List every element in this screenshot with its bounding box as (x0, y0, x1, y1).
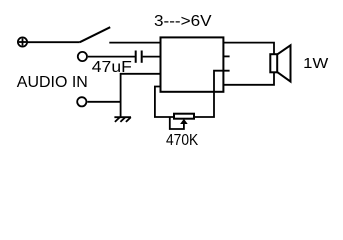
svg-text:1W: 1W (303, 55, 329, 72)
IC U1 box (161, 37, 224, 91)
audio input terminal (lower) (77, 97, 86, 106)
svg-text:470K: 470K (166, 132, 198, 149)
switch S1 blade (80, 27, 110, 42)
potentiometer R1 body (174, 114, 194, 119)
IC pin stub (right side) (223, 55, 229, 57)
wire capacitor to IC input pin (143, 56, 161, 58)
wire lower terminal to ground node (87, 101, 120, 103)
wire battery to switch (27, 41, 79, 43)
wire IC output to speaker (top) (223, 43, 274, 55)
wire IC output to speaker (bottom) (223, 72, 274, 85)
wire switch to IC pin (supply) (109, 42, 160, 44)
IC ground pin wire (121, 74, 161, 117)
pot right wire up to IC output pin (194, 71, 230, 117)
potentiometer wiper arrow (170, 117, 188, 129)
wire terminal to capacitor (88, 56, 135, 58)
speaker LS1 (270, 45, 290, 81)
capacitor C1 47uF (136, 51, 142, 63)
battery + terminal (18, 37, 27, 46)
IC feedback pin to pot (left side) (155, 87, 174, 118)
audio input terminal (upper) (78, 52, 87, 61)
ground (114, 117, 131, 122)
svg-text:3--->6V: 3--->6V (154, 13, 212, 30)
svg-text:AUDIO IN: AUDIO IN (17, 74, 88, 91)
